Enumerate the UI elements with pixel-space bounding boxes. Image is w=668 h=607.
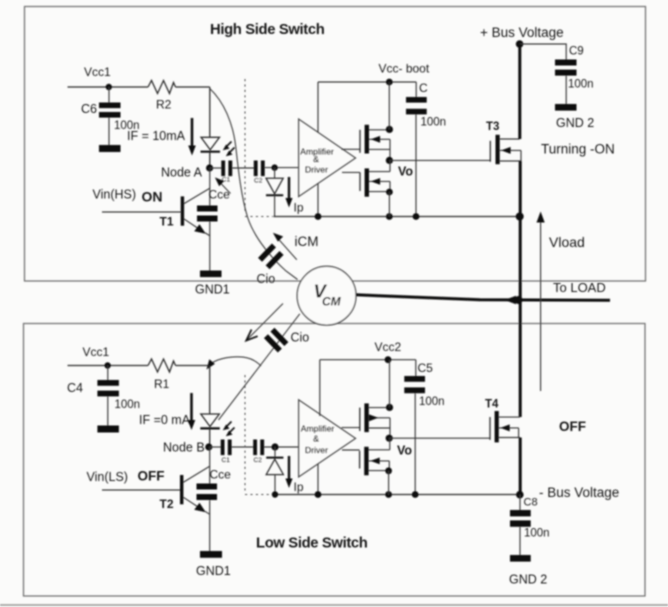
wire C4 top lead xyxy=(107,366,109,381)
M2 gate lead xyxy=(342,171,360,173)
svg-text:ON: ON xyxy=(142,189,163,205)
M4 drain lead xyxy=(368,449,389,451)
low side switch enclosure box xyxy=(24,324,646,597)
T3 gate plate xyxy=(489,141,491,162)
wire C8 bottom lead xyxy=(519,527,521,555)
M1 source lead xyxy=(369,148,390,150)
iCM curved path (high side) xyxy=(210,89,298,280)
M1 drain lead xyxy=(369,129,390,131)
node Vcc-boot junction xyxy=(386,79,393,86)
svg-text:IF = 10mA: IF = 10mA xyxy=(127,129,186,143)
svg-text:iCM: iCM xyxy=(295,234,319,249)
wire R2 to LED anode corner xyxy=(176,86,210,88)
wire T2 emitter to GND1 xyxy=(205,511,210,514)
svg-text:Amplifier: Amplifier xyxy=(301,424,335,434)
voltage source VCM circle xyxy=(297,266,356,325)
svg-text:Cce: Cce xyxy=(210,468,232,482)
svg-text:C4: C4 xyxy=(67,381,83,395)
M3 channel bar xyxy=(364,403,368,432)
wire T2 base lead from Vin(LS) xyxy=(102,489,180,491)
isolation dotted line (high side) xyxy=(244,79,246,213)
node C2/diode junction xyxy=(271,164,277,170)
wire C5 bottom to floating rail (low side) xyxy=(414,393,416,494)
svg-text:Ip: Ip xyxy=(294,480,304,494)
svg-text:R1: R1 xyxy=(154,377,170,391)
M2 channel bar xyxy=(365,168,369,196)
svg-text:100n: 100n xyxy=(524,528,550,540)
page bottom scan line xyxy=(0,604,668,606)
wire diode cathode lead (low side) xyxy=(274,447,276,457)
node A junction xyxy=(206,164,213,171)
svg-text:Ip: Ip xyxy=(294,201,304,215)
M2 source lead xyxy=(369,191,390,193)
wire C6 bottom lead xyxy=(108,118,110,145)
wire C8 top lead xyxy=(519,495,521,510)
wire M4 source to floating rail xyxy=(388,471,390,495)
thick wire T3 source down to To LOAD junction and T4 drain xyxy=(519,161,522,417)
svg-text:Vin(HS): Vin(HS) xyxy=(93,188,137,202)
high side switch enclosure box xyxy=(25,7,646,282)
svg-text:OFF: OFF xyxy=(559,419,586,434)
wire rail corner to capacitor C5 xyxy=(415,360,417,376)
svg-text:Vcc1: Vcc1 xyxy=(84,65,111,79)
svg-text:GND1: GND1 xyxy=(195,283,230,297)
wire rail corner to capacitor C xyxy=(415,82,417,97)
svg-text:&: & xyxy=(313,434,319,444)
M1 gate plate xyxy=(359,130,361,153)
wire Vo output line to T3 gate xyxy=(389,159,490,161)
T4 body lead with arrow xyxy=(499,427,519,429)
wire Vcc1 rail to R1 xyxy=(68,365,149,367)
svg-text:C2: C2 xyxy=(254,178,263,185)
arrow into R1 node (low side) xyxy=(207,359,215,369)
svg-text:IF =0 mA: IF =0 mA xyxy=(139,413,191,427)
op-amp U1 Amplifier & Driver triangle xyxy=(299,119,356,197)
node load line / bus junction xyxy=(515,296,523,304)
M3 source lead xyxy=(369,427,390,429)
wire Vcc2 rail xyxy=(320,359,416,361)
wire C6 top lead xyxy=(108,87,110,103)
svg-text:Turning -ON: Turning -ON xyxy=(541,142,615,157)
wire Vcc-boot rail xyxy=(318,81,416,83)
ground bar GND1 (low side) xyxy=(200,551,222,558)
capacitor Cce (high side) xyxy=(197,206,218,212)
M4 gate plate xyxy=(359,451,361,469)
wire amplifier negative supply to floating rail xyxy=(317,183,319,216)
capacitor C boot xyxy=(406,97,427,103)
svg-text:Node B: Node B xyxy=(163,441,205,455)
node Vcc1/C6 junction xyxy=(106,84,112,90)
svg-text:C5: C5 xyxy=(418,361,434,375)
svg-text:Vcc1: Vcc1 xyxy=(83,345,110,359)
wire diode anode to floating rail (low side) xyxy=(274,475,276,495)
M2 source node xyxy=(386,189,393,196)
floating rail (high side) xyxy=(274,216,521,218)
resistor R1 xyxy=(148,359,176,372)
svg-text:Cio: Cio xyxy=(257,272,276,286)
wire C1 to C2 xyxy=(232,167,254,169)
arrow into Node A xyxy=(219,182,231,194)
T4 gate plate xyxy=(489,417,491,440)
wire M1 source to Vo node xyxy=(389,149,391,160)
thick wire T4 source to - Bus Voltage node xyxy=(519,438,522,495)
node rail/M4 source junction xyxy=(385,491,392,498)
floating rail (low side) xyxy=(274,494,521,496)
svg-text:High Side Switch: High Side Switch xyxy=(210,22,325,38)
svg-text:Vload: Vload xyxy=(549,234,585,250)
IF current arrow (low side) xyxy=(190,393,193,422)
wire Vcc-boot to M1 drain xyxy=(388,82,390,129)
T4 drain lead xyxy=(499,416,520,418)
svg-text:100n: 100n xyxy=(421,117,447,129)
wire rail to amplifier positive supply xyxy=(317,82,319,133)
wire LED anode vertical (low side) xyxy=(209,366,211,415)
LED D1 opto emitter (high side) xyxy=(201,137,220,150)
svg-text:OFF: OFF xyxy=(138,469,165,484)
wire C9 to GND2 xyxy=(565,76,567,104)
node rail/C junction xyxy=(413,213,420,220)
wire amplifier negative supply to floating rail (low side) xyxy=(317,464,319,495)
wire C2 to amplifier input (low side) xyxy=(264,446,298,448)
svg-text:T2: T2 xyxy=(160,497,174,511)
Ip arrow (low side) xyxy=(288,456,290,480)
T1 emitter diagonal with arrow xyxy=(184,219,204,232)
svg-text:C1: C1 xyxy=(222,457,231,464)
svg-text:Vo: Vo xyxy=(398,165,413,179)
node rail/amplifier junction xyxy=(315,213,322,220)
svg-text:Node A: Node A xyxy=(161,166,203,180)
wire Vcc1 rail to R2 xyxy=(68,86,149,88)
wire Vcc2 to M3 drain xyxy=(389,360,391,408)
M3 gate lead xyxy=(342,427,360,429)
svg-text:C1: C1 xyxy=(222,177,231,184)
M1 body lead with arrow xyxy=(369,138,390,140)
ground bar GND1 (high side) xyxy=(200,271,222,278)
thick bus wire + Bus Voltage down to T3 drain xyxy=(518,44,521,139)
M2 drain riser xyxy=(389,160,391,171)
M4 gate lead xyxy=(342,449,360,451)
capacitor C2 (high side) xyxy=(254,161,258,177)
IF current arrow (high side) xyxy=(191,118,194,147)
node rail/M2 source junction xyxy=(386,213,393,220)
wire LED cathode to Node A xyxy=(209,152,211,168)
svg-text:GND 2: GND 2 xyxy=(509,573,547,587)
node - bus voltage xyxy=(516,491,524,499)
M1 gate lead xyxy=(342,148,361,150)
node B junction xyxy=(205,443,212,450)
M3 drain lead xyxy=(369,407,390,409)
wire Node A to T1 collector / Cce xyxy=(209,168,211,206)
svg-text:C2: C2 xyxy=(254,457,263,464)
capacitor C1 (high side) xyxy=(221,161,225,177)
svg-text:T4: T4 xyxy=(485,399,499,411)
node C2/diode junction (low side) xyxy=(271,443,278,450)
iCM direction arrow xyxy=(278,238,297,260)
wire rail to amplifier positive supply (low side) xyxy=(319,360,321,416)
svg-text:CM: CM xyxy=(322,295,342,309)
ground bar GND2 (high side) xyxy=(555,104,577,111)
transistor T1 base bar xyxy=(181,196,184,225)
ground bar (C6 local ground) xyxy=(99,145,121,152)
M4 drain riser xyxy=(389,438,391,450)
wire LED anode vertical xyxy=(209,87,211,137)
svg-text:Low Side Switch: Low Side Switch xyxy=(256,536,368,552)
svg-text:100n: 100n xyxy=(419,396,445,408)
wire M2 source to floating rail xyxy=(388,192,390,217)
svg-text:&: & xyxy=(313,154,319,164)
svg-text:C: C xyxy=(419,81,428,95)
capacitor C1 (low side) xyxy=(221,440,225,456)
T2 collector diagonal xyxy=(183,466,209,482)
M4 source node xyxy=(385,467,392,474)
T2 emitter diagonal with arrow xyxy=(183,497,203,510)
Ip arrow (high side) xyxy=(288,177,290,200)
svg-text:100n: 100n xyxy=(568,79,594,91)
node + bus voltage xyxy=(516,40,524,48)
svg-text:C8: C8 xyxy=(524,497,538,509)
svg-text:GND1: GND1 xyxy=(196,564,231,578)
transistor T2 base bar xyxy=(180,475,183,504)
svg-text:T3: T3 xyxy=(486,121,499,133)
M3 drain node xyxy=(386,404,393,411)
node rail/amplifier junction (low side) xyxy=(315,491,322,498)
svg-text:Vo: Vo xyxy=(397,444,412,458)
diode D2 input clamp (high side) xyxy=(266,178,283,194)
diode D4 input clamp (low side, pointing up) xyxy=(266,457,283,459)
T4 channel bar xyxy=(495,411,499,442)
node Vo (high side) xyxy=(386,157,393,164)
wire C1 to C2 (low side) xyxy=(232,446,254,448)
svg-text:C6: C6 xyxy=(81,102,97,116)
svg-text:To LOAD: To LOAD xyxy=(553,280,606,295)
svg-text:Vcc- boot: Vcc- boot xyxy=(379,62,430,76)
M3 body lead with arrow (points right) xyxy=(369,417,390,419)
capacitor Cce (low side) xyxy=(197,484,218,490)
curve from R1 node joining diagonal xyxy=(211,357,261,366)
arrowhead on load line xyxy=(505,296,517,305)
svg-text:+ Bus Voltage: + Bus Voltage xyxy=(480,25,564,40)
svg-text:T1: T1 xyxy=(160,215,174,229)
svg-text:Driver: Driver xyxy=(305,445,328,455)
svg-text:GND 2: GND 2 xyxy=(556,116,594,130)
M4 body lead with arrow xyxy=(369,460,390,462)
svg-text:100n: 100n xyxy=(115,399,141,411)
svg-text:Cio: Cio xyxy=(291,331,310,345)
wire Node B to C1 xyxy=(210,446,221,448)
iCM curved path (low side) : diagonal through Cio xyxy=(219,314,300,420)
wire M3 source to Vo node (low side) xyxy=(389,428,391,438)
svg-text:C9: C9 xyxy=(569,46,584,58)
M1 drain node xyxy=(386,126,393,133)
op-amp U2 Amplifier & Driver triangle xyxy=(299,400,356,477)
isolation dotted line (low side) xyxy=(244,375,246,491)
node Vcc2 junction xyxy=(385,356,392,363)
M3 gate plate xyxy=(359,408,361,431)
node rail/T3 source junction xyxy=(516,213,524,221)
node Vo (low side) xyxy=(386,435,393,442)
resistor R2 xyxy=(148,81,176,94)
node Vcc1/C4 junction xyxy=(104,362,110,368)
LED D3 opto emitter (low side) xyxy=(201,414,220,427)
capacitor Cio (high side, diagonal) xyxy=(258,243,276,261)
thick wire VCM to LOAD xyxy=(356,295,610,300)
M4 source lead xyxy=(369,470,390,472)
capacitor C4 xyxy=(97,380,119,386)
wire T1 emitter to GND1 xyxy=(205,233,210,236)
T3 drain lead xyxy=(500,138,520,140)
wire C2 to amplifier input xyxy=(265,167,299,169)
wire R1 to node B corner xyxy=(176,365,209,367)
T1 collector diagonal xyxy=(184,188,210,204)
wire LED cathode to Node B xyxy=(209,428,211,447)
svg-text:Driver: Driver xyxy=(305,165,328,175)
wire T1 base lead from Vin(HS) xyxy=(102,211,181,213)
wire C bottom to floating rail xyxy=(415,114,417,216)
wire Node A to C1 xyxy=(210,167,222,169)
capacitor C9 xyxy=(555,60,577,66)
T3 body lead with arrow xyxy=(500,149,521,151)
M1 channel bar xyxy=(365,125,369,154)
iCM direction arrow (low side, open head) xyxy=(248,304,283,339)
capacitor C2 (low side) xyxy=(253,440,257,456)
svg-text:R2: R2 xyxy=(156,98,172,112)
M2 gate plate xyxy=(359,172,361,191)
node rail/C5 junction xyxy=(412,491,419,498)
T3 channel bar xyxy=(496,135,500,164)
svg-text:- Bus Voltage: - Bus Voltage xyxy=(539,485,619,500)
node rail/diode junction (low side) xyxy=(272,491,278,497)
svg-text:Vin(LS): Vin(LS) xyxy=(87,470,128,484)
wire C4 bottom lead xyxy=(107,396,109,425)
capacitor C8 xyxy=(510,510,531,516)
wire diode cathode to floating rail xyxy=(274,195,276,216)
svg-text:Vcc2: Vcc2 xyxy=(375,340,402,354)
capacitor C6 xyxy=(99,103,121,109)
Vload arrow xyxy=(540,219,542,391)
ground bar GND2 (low side) xyxy=(510,555,531,562)
T4 source lead xyxy=(499,437,520,439)
M2 body lead with arrow xyxy=(369,180,390,182)
M4 channel bar xyxy=(364,447,368,476)
M2 drain lead xyxy=(369,171,390,173)
ground bar (C4 local ground) xyxy=(97,426,119,433)
wire diode anode lead xyxy=(274,168,276,179)
capacitor C5 xyxy=(404,376,425,382)
LED emission arrows (low side) xyxy=(226,422,232,428)
wire bus dot to C9 xyxy=(520,44,567,60)
capacitor Cio (low side, diagonal) xyxy=(264,334,282,352)
wire Vo output line to T4 gate xyxy=(389,437,490,439)
T3 source lead xyxy=(500,160,521,162)
wire Node B to T2 collector / Cce xyxy=(209,447,211,484)
LED emission arrows xyxy=(226,142,232,148)
